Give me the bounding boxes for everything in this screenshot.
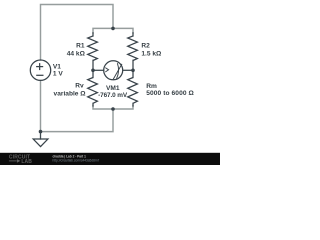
svg-text:Rv: Rv [75, 83, 84, 90]
svg-text:variable Ω: variable Ω [54, 91, 87, 98]
svg-text:VM1: VM1 [106, 85, 120, 92]
svg-text:R2: R2 [141, 43, 150, 50]
svg-text:Rm: Rm [146, 83, 157, 90]
svg-text:http://circuitlab.com/c443a5d8: http://circuitlab.com/c443a5d8m7 [53, 159, 100, 163]
svg-text:1 V: 1 V [53, 70, 63, 77]
svg-text:LAB: LAB [21, 159, 32, 165]
svg-text:1.5 kΩ: 1.5 kΩ [141, 51, 162, 58]
svg-text:-767.0 mV: -767.0 mV [98, 92, 128, 99]
svg-text:R1: R1 [76, 43, 85, 50]
svg-text:5000 to 6000 Ω: 5000 to 6000 Ω [146, 90, 194, 97]
svg-text:44 kΩ: 44 kΩ [67, 51, 86, 58]
